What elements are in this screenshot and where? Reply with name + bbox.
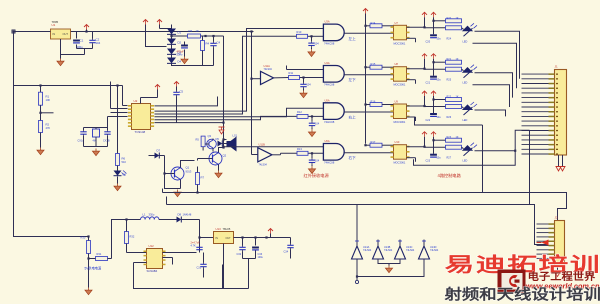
- wire caps common: [223, 259, 256, 289]
- resistor R4: [201, 36, 210, 66]
- wire gate1 output: [344, 32, 393, 34]
- wire row1 aux: [473, 43, 517, 88]
- svg-text:47K: 47K: [46, 126, 51, 130]
- svg-text:MOC3061: MOC3061: [394, 161, 406, 165]
- svg-text:1N4148: 1N4148: [183, 214, 192, 217]
- resistor R3 1K: [188, 29, 201, 38]
- node output stub: [355, 277, 358, 284]
- crystal X1: [93, 129, 100, 147]
- resistor R22: [446, 96, 462, 102]
- svg-text:U11B: U11B: [259, 143, 266, 147]
- svg-text:R22: R22: [447, 96, 452, 99]
- wire pin1 feed: [155, 97, 218, 106]
- wire gate2 output: [344, 74, 393, 76]
- svg-text:74LS04: 74LS04: [406, 249, 415, 252]
- optocoupler U9: [391, 100, 410, 125]
- svg-text:R16: R16: [371, 100, 376, 104]
- power flag (row4 b): [431, 132, 446, 142]
- power flag (J1 b): [560, 167, 565, 172]
- svg-text:R20: R20: [447, 17, 452, 20]
- watermark eeworld title: [528, 271, 596, 283]
- watermark yiditop: [445, 253, 600, 275]
- svg-text:R30: R30: [81, 236, 86, 240]
- svg-text:74LS04: 74LS04: [363, 249, 372, 252]
- wire feed to audio stage: [222, 36, 224, 148]
- wire control bus A: [163, 189, 567, 221]
- svg-text:OUT: OUT: [226, 237, 232, 240]
- capacitor C3 470uF: [177, 42, 188, 57]
- svg-text:R32: R32: [130, 235, 135, 239]
- svg-text:74LS04: 74LS04: [259, 164, 268, 167]
- svg-text:U5A: U5A: [325, 98, 330, 102]
- wire row3 bottom: [415, 117, 483, 125]
- resistor R1 100K: [39, 86, 51, 106]
- svg-text:IN: IN: [53, 32, 56, 36]
- svg-text:MOC3061: MOC3061: [394, 83, 406, 87]
- diode D4: [167, 55, 182, 64]
- label IR power: [304, 172, 330, 179]
- wire row4 loop: [414, 130, 530, 165]
- wire data bus 2: [155, 36, 297, 114]
- diode D8: [177, 213, 200, 223]
- svg-text:C23: C23: [426, 160, 431, 163]
- svg-text:U9: U9: [395, 100, 399, 104]
- svg-text:74LS04: 74LS04: [430, 249, 439, 252]
- svg-text:R10: R10: [297, 30, 302, 34]
- svg-text:R11: R11: [289, 71, 294, 75]
- power flag (row4 a): [422, 132, 427, 147]
- wire reg input: [198, 236, 213, 238]
- svg-text:330u: 330u: [149, 213, 155, 217]
- svg-text:R24: R24: [447, 37, 452, 40]
- wire bridge right: [170, 35, 187, 66]
- svg-text:R26: R26: [447, 116, 452, 119]
- wire J2 below: [555, 267, 560, 277]
- svg-text:R7: R7: [201, 176, 205, 180]
- wire buffer feed: [250, 30, 252, 154]
- svg-text:1K: 1K: [196, 29, 200, 33]
- svg-text:U4A: U4A: [325, 61, 330, 65]
- power flag (row3 b): [431, 91, 446, 101]
- wire LED chain: [117, 86, 119, 154]
- resistor R24: [446, 26, 464, 41]
- svg-text:TC9148: TC9148: [135, 130, 146, 134]
- resistor R31: [87, 252, 111, 261]
- resistor R6: [116, 154, 127, 166]
- resistor R20: [446, 17, 462, 23]
- wire U1 ground lead: [60, 39, 62, 59]
- resistor R10 input: [297, 30, 313, 39]
- capacitor C13 filter: [309, 153, 320, 164]
- resistor R32: [125, 218, 147, 252]
- buffer U11A: [252, 64, 274, 85]
- resistor R7: [196, 167, 205, 194]
- svg-text:射频和天线设计培训: 射频和天线设计培训: [443, 286, 600, 303]
- wire J2 pin harness: [537, 224, 549, 258]
- encoder IC U2 TC9148: [128, 99, 154, 134]
- ground (LED chain): [114, 177, 121, 191]
- wire opto4 out: [407, 146, 446, 162]
- power flag (row2 b): [431, 54, 446, 64]
- svg-text:D5: D5: [216, 137, 220, 141]
- wire row1 to connector: [475, 31, 520, 79]
- svg-text:C31: C31: [197, 267, 202, 270]
- capacitor C11 filter: [300, 78, 311, 89]
- svg-text:104: 104: [315, 122, 320, 125]
- svg-text:78L05: 78L05: [223, 227, 231, 231]
- svg-text:C21: C21: [426, 82, 431, 85]
- ground (crystal): [92, 149, 99, 156]
- LED D13: [462, 143, 477, 163]
- buffer U11B: [252, 143, 273, 167]
- svg-text:C5: C5: [180, 90, 184, 94]
- resistor R23: [446, 136, 462, 142]
- capacitor C21: [426, 62, 442, 84]
- wire gate4 output: [344, 152, 393, 154]
- svg-text:R23: R23: [447, 136, 452, 139]
- buffer U14C: [395, 240, 415, 260]
- AND gate U6A: [323, 139, 356, 165]
- wire Q1 base loop: [163, 156, 174, 189]
- wire bias rail: [14, 84, 121, 86]
- svg-text:U8: U8: [395, 62, 399, 66]
- svg-text:D8: D8: [178, 213, 182, 217]
- svg-text:104: 104: [315, 159, 320, 162]
- wire osc mid: [163, 258, 173, 265]
- AND gate U5A: [323, 98, 356, 124]
- svg-text:C32: C32: [237, 253, 242, 256]
- svg-text:104: 104: [96, 41, 101, 45]
- power flag (reg out): [268, 229, 273, 238]
- wire opto1 out: [407, 26, 446, 42]
- wire gate1 inputs: [308, 35, 324, 37]
- oscillator IC U12: [144, 244, 166, 273]
- svg-text:74HC08: 74HC08: [324, 41, 335, 45]
- wire reg output: [234, 236, 271, 238]
- wire control bus B: [167, 197, 549, 245]
- resistor R15 pullup: [364, 62, 393, 69]
- svg-text:D2: D2: [178, 41, 182, 45]
- resistor R2: [39, 105, 54, 132]
- capacitor CX2: [103, 128, 111, 147]
- ground (supply): [85, 288, 92, 295]
- power flag (C5): [174, 82, 179, 87]
- svg-text:74HC08: 74HC08: [324, 83, 335, 87]
- svg-text:9013: 9013: [186, 170, 192, 174]
- wire osc bottom loop: [134, 263, 223, 289]
- inductor L1: [141, 213, 159, 220]
- wire crystal top: [84, 117, 128, 130]
- svg-text:J1: J1: [555, 65, 559, 69]
- capacitor C31: [197, 253, 207, 278]
- resistor R12 input: [297, 110, 313, 119]
- wire bias tap to IC: [121, 86, 128, 106]
- wire gate2 inputs: [274, 66, 324, 78]
- ground (gate1 filter): [308, 47, 315, 56]
- svg-text:CX1B: CX1B: [103, 140, 110, 143]
- buffer U14B: [373, 240, 393, 260]
- wire gate3 output: [344, 111, 393, 113]
- wire row2 to connector: [475, 73, 513, 98]
- svg-text:R2: R2: [46, 123, 50, 127]
- LED D12: [462, 102, 477, 122]
- svg-text:红外接收电源: 红外接收电源: [304, 172, 330, 179]
- ground (gate3 filter): [308, 127, 315, 136]
- svg-text:R14: R14: [371, 21, 376, 25]
- svg-text:右下: 右下: [349, 155, 357, 160]
- wire R2 to ground: [40, 133, 42, 148]
- svg-text:C4: C4: [217, 41, 221, 45]
- svg-text:4M: 4M: [93, 140, 96, 143]
- svg-text:L1: L1: [143, 213, 147, 217]
- svg-text:LS1: LS1: [233, 134, 238, 138]
- ground (U1): [57, 59, 64, 66]
- svg-text:R12: R12: [297, 110, 302, 114]
- svg-text:左下: 左下: [349, 77, 357, 82]
- svg-text:SC9AB4: SC9AB4: [147, 269, 158, 273]
- wire bridge bottom: [185, 65, 214, 67]
- svg-text:U7: U7: [395, 21, 399, 25]
- capacitor C1 100uF: [73, 32, 84, 50]
- svg-text:R27: R27: [447, 157, 452, 160]
- buzzer LS1: [222, 134, 237, 152]
- svg-text:U6A: U6A: [325, 139, 330, 143]
- resistor R25: [446, 67, 464, 82]
- label supply: [85, 266, 102, 271]
- svg-text:U3A: U3A: [325, 20, 330, 24]
- svg-text:10u: 10u: [437, 116, 442, 119]
- label 4-way control: [438, 172, 462, 179]
- transistor Q2: [198, 152, 227, 165]
- ground (Q1): [174, 180, 181, 197]
- wire U2 left pins: [111, 82, 128, 113]
- svg-text:C1: C1: [80, 39, 84, 43]
- power flag (buzzer): [219, 127, 225, 134]
- svg-text:510: 510: [122, 160, 127, 164]
- wire osc loop left: [112, 220, 141, 259]
- svg-text:1K: 1K: [456, 96, 459, 99]
- wire feed from bus: [356, 205, 358, 240]
- wire data bus 4: [155, 116, 297, 119]
- wire row4 drop2: [529, 130, 531, 204]
- node arrow (J2 feed): [537, 240, 549, 246]
- wire row3 drop2: [482, 125, 484, 193]
- svg-text:1K: 1K: [456, 136, 459, 139]
- svg-text:10u: 10u: [437, 157, 442, 160]
- resistor R16 pullup: [364, 100, 393, 107]
- wire data bus 1: [155, 29, 324, 112]
- capacitor C34: [271, 238, 294, 259]
- svg-text:1K: 1K: [456, 58, 459, 61]
- wire Q1 collector: [181, 161, 195, 168]
- svg-text:LED: LED: [463, 119, 468, 122]
- capacitor C33 +: [252, 238, 263, 260]
- voltage regulator U1 7805: [48, 20, 71, 39]
- svg-text:R15: R15: [371, 62, 376, 66]
- watermark slogan: [443, 286, 600, 303]
- svg-text:Q3: Q3: [208, 134, 212, 138]
- resistor R27: [446, 145, 464, 160]
- AND gate U3A: [323, 20, 356, 46]
- svg-text:左上: 左上: [349, 36, 357, 41]
- svg-text:C22: C22: [426, 119, 431, 122]
- svg-text:50Hz: 50Hz: [177, 53, 184, 57]
- connector J1: [549, 65, 567, 156]
- wire left rail down: [14, 32, 89, 237]
- optocoupler U10: [391, 140, 410, 165]
- svg-text:IN: IN: [216, 237, 219, 240]
- wire osc right: [163, 220, 200, 253]
- diode D1: [167, 25, 182, 35]
- ground (buffers): [385, 264, 392, 273]
- capacitor C32: [237, 238, 246, 259]
- transistor Q1: [171, 166, 192, 181]
- wire row3 to connector: [475, 110, 506, 116]
- wire L1 to D8: [159, 219, 177, 221]
- optocoupler U7: [391, 21, 410, 46]
- voltage regulator U13 78L05: [214, 227, 234, 244]
- svg-text:10K: 10K: [46, 98, 51, 102]
- svg-text:MOC3061: MOC3061: [394, 120, 406, 124]
- wire J1 pin harness: [522, 74, 549, 154]
- wire gate4 inputs: [224, 147, 325, 155]
- ground (bias): [37, 148, 44, 155]
- power flag (J1 a): [556, 167, 561, 172]
- wire capacitor commons: [61, 45, 93, 55]
- wire reg ground: [223, 244, 225, 289]
- svg-text:R5: R5: [196, 138, 200, 142]
- power flag VCC: [84, 25, 89, 33]
- capacitor C10 filter: [308, 36, 319, 47]
- capacitor C5 104: [173, 87, 183, 123]
- svg-text:R13: R13: [297, 147, 302, 151]
- svg-text:74HC08: 74HC08: [324, 161, 335, 165]
- wire buffer mid pair: [378, 259, 400, 264]
- ground (Q2): [215, 165, 222, 178]
- power flag (row2 a): [422, 54, 427, 69]
- capacitor C30: [191, 242, 203, 252]
- ground (gate2 filter): [300, 89, 307, 98]
- buffer U14A: [352, 240, 372, 260]
- svg-text:10u: 10u: [437, 79, 442, 82]
- wire opto3 out: [407, 105, 446, 121]
- diode D5: [213, 137, 227, 147]
- watermark logo box: [498, 270, 526, 293]
- svg-text:74LS04: 74LS04: [384, 249, 393, 252]
- resistor R5: [196, 136, 206, 150]
- svg-text:右上: 右上: [349, 115, 357, 120]
- svg-text:C34: C34: [284, 251, 289, 254]
- diode D2: [167, 35, 182, 45]
- power flag (U2): [141, 85, 161, 104]
- svg-text:R31: R31: [97, 252, 102, 256]
- svg-text:LED: LED: [463, 40, 468, 43]
- wire row2 aux: [473, 85, 510, 107]
- wire gate3 inputs: [308, 115, 323, 117]
- connector J2: [549, 216, 565, 267]
- svg-text:R4: R4: [206, 42, 210, 46]
- node input terminal: [12, 30, 15, 33]
- buffer U14D: [419, 240, 439, 260]
- power flag (row3 a): [422, 91, 427, 106]
- svg-text:R17: R17: [371, 140, 376, 144]
- svg-text:U13: U13: [216, 227, 222, 231]
- wire bridge output: [201, 35, 224, 37]
- svg-text:74HC08: 74HC08: [324, 120, 335, 124]
- resistor R30: [81, 235, 91, 287]
- svg-text:C20: C20: [426, 40, 431, 43]
- svg-text:4.7K: 4.7K: [191, 245, 196, 248]
- optocoupler U8: [391, 62, 410, 87]
- svg-text:D1: D1: [178, 31, 182, 35]
- svg-text:D7: D7: [157, 149, 161, 153]
- svg-text:4路控制电路: 4路控制电路: [438, 172, 462, 179]
- capacitor C22: [426, 100, 442, 123]
- diode D3: [167, 45, 182, 55]
- wire buffer outer pair: [356, 259, 424, 278]
- transistor Q3: [205, 134, 216, 152]
- ground (gate4 filter): [308, 164, 315, 173]
- wire Q2 collector: [219, 146, 225, 152]
- svg-text:U10: U10: [395, 140, 400, 144]
- power flag (row1 a): [422, 12, 427, 27]
- LED D10: [462, 23, 477, 43]
- svg-text:D4: D4: [178, 60, 182, 64]
- LED D6: [114, 166, 127, 177]
- capacitor C4 104: [210, 36, 220, 66]
- svg-text:Q1: Q1: [186, 166, 190, 170]
- wire crystal bottom: [84, 146, 108, 148]
- svg-text:J2: J2: [555, 216, 559, 220]
- svg-text:R25: R25: [447, 79, 452, 82]
- svg-text:R21: R21: [447, 58, 452, 61]
- wire bridge left: [146, 25, 172, 47]
- wire J1 bottom leads: [559, 155, 563, 167]
- resistor R11 input: [289, 71, 305, 80]
- svg-text:7805: 7805: [52, 20, 59, 24]
- resistor R13 input: [297, 147, 313, 156]
- svg-text:5V供电电源: 5V供电电源: [85, 266, 102, 271]
- AND gate U4A: [323, 61, 356, 87]
- ground (bridge): [181, 50, 188, 64]
- resistor R17 pullup: [364, 140, 393, 147]
- wire VCC rail: [365, 14, 367, 144]
- resistor R21: [446, 58, 462, 64]
- svg-text:10u: 10u: [437, 37, 442, 40]
- capacitor CX1: [78, 128, 87, 147]
- svg-text:Q2: Q2: [223, 154, 227, 158]
- svg-text:R6: R6: [122, 157, 126, 161]
- svg-text:U12: U12: [149, 244, 155, 248]
- svg-text:R3: R3: [189, 29, 193, 33]
- svg-text:MOC3061: MOC3061: [394, 41, 406, 45]
- svg-text:74LS04: 74LS04: [264, 68, 273, 71]
- capacitor C23: [426, 140, 442, 163]
- svg-text:U2: U2: [134, 99, 138, 103]
- resistor R14 pullup: [364, 21, 393, 28]
- power flag VCC rail: [363, 9, 368, 14]
- wire main +V rail: [14, 31, 254, 33]
- capacitor C20: [426, 21, 442, 44]
- svg-text:OUT: OUT: [63, 32, 69, 36]
- capacitor C12 filter: [309, 116, 320, 127]
- svg-text:1K: 1K: [456, 17, 459, 20]
- svg-text:100u: 100u: [258, 256, 264, 259]
- svg-text:R1: R1: [46, 95, 50, 99]
- LED D11: [462, 65, 477, 85]
- wire opto2 out: [407, 68, 446, 84]
- power flag (row1 b): [431, 12, 446, 22]
